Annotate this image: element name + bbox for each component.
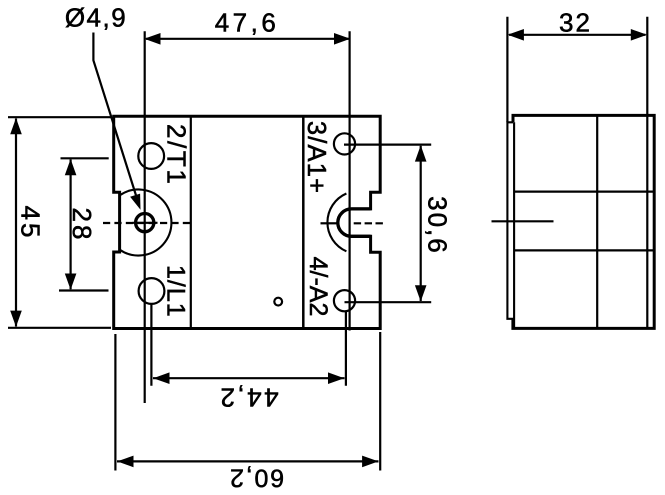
svg-text:60,2: 60,2 xyxy=(228,464,284,492)
svg-text:Ø4,9: Ø4,9 xyxy=(65,3,127,33)
svg-text:45: 45 xyxy=(16,206,46,241)
svg-text:4/-A2: 4/-A2 xyxy=(304,257,332,317)
dimension 45 extension line bottom xyxy=(8,327,111,329)
side view centerline tick xyxy=(492,220,554,222)
dimension 30,6 extension line top xyxy=(344,144,431,146)
side view body left edge xyxy=(513,122,515,327)
vertical centerline through right slot xyxy=(349,31,351,330)
svg-text:47,6: 47,6 xyxy=(215,8,280,38)
dimension 60,2 arrowheads xyxy=(117,456,133,468)
dimension 47,6 line xyxy=(146,38,349,40)
dimension 44,2 line xyxy=(153,377,345,379)
horizontal dashed centerline right xyxy=(321,222,337,224)
U-slot thick arc emphasis xyxy=(338,209,371,236)
dimension 60,2 line xyxy=(117,460,379,462)
side view outline xyxy=(513,115,654,328)
dimension 32 extension line right xyxy=(646,17,648,117)
mounting lobe arc right xyxy=(327,194,346,252)
terminal circle 3/A1+ xyxy=(334,133,355,154)
side view baseplate front edge xyxy=(507,122,514,318)
small indicator dot xyxy=(274,298,282,306)
svg-text:44,2: 44,2 xyxy=(218,383,279,413)
dimension 44,2 arrowheads xyxy=(153,372,169,384)
svg-text:1/L1: 1/L1 xyxy=(162,265,190,318)
terminal circle 4/-A2 xyxy=(334,290,355,311)
extension line 44,2 right xyxy=(345,312,347,386)
dimension 30,6 arrowheads xyxy=(415,145,427,161)
svg-text:2/T1: 2/T1 xyxy=(162,124,192,186)
horizontal dashed centerline left xyxy=(103,222,191,224)
leader line Ø4,9 xyxy=(93,33,137,200)
left terminal divider line xyxy=(190,118,192,328)
svg-text:3/A1+: 3/A1+ xyxy=(302,121,330,194)
dimension 45 extension line top xyxy=(8,116,112,118)
dimension 28 extension line top xyxy=(61,157,109,159)
dimension 28 line xyxy=(69,160,71,290)
mounting lobe arc left xyxy=(120,190,172,256)
terminal circle 2/T1 xyxy=(138,143,164,169)
dimension 28 extension line bottom xyxy=(59,289,109,291)
svg-text:28: 28 xyxy=(67,208,97,243)
side view inner vertical line mid xyxy=(596,117,598,328)
dimension 47,6 arrowheads xyxy=(144,33,160,45)
dimension 32 line xyxy=(509,34,646,36)
hole crosshair horizontal xyxy=(133,222,158,224)
leader arrowhead Ø4,9 xyxy=(130,194,140,210)
side view inner horizontal line lower xyxy=(514,249,653,251)
dimension 32 extension line left xyxy=(506,17,508,123)
right terminal divider line xyxy=(302,118,305,328)
dimension 30,6 extension line bottom xyxy=(345,301,432,303)
extension line 60,2 right xyxy=(379,332,381,471)
dimension 45 arrowheads xyxy=(10,118,22,134)
front view body outline xyxy=(114,116,381,328)
svg-text:32: 32 xyxy=(559,8,592,38)
dimension 28 arrowheads xyxy=(65,159,77,175)
extension line 44,2 left xyxy=(150,305,152,386)
terminal circle 1/L1 xyxy=(139,278,165,304)
side view inner horizontal line upper xyxy=(514,191,653,193)
vertical centerline through left hole xyxy=(144,31,146,403)
mounting hole ring xyxy=(136,214,154,232)
dimension 32 arrowheads xyxy=(508,29,524,41)
extension line 60,2 left xyxy=(114,334,116,471)
dimension 45 line xyxy=(15,119,17,327)
svg-text:30,6: 30,6 xyxy=(423,196,453,255)
side view inner vertical line right xyxy=(646,117,648,328)
dimension 30,6 line xyxy=(420,146,422,301)
